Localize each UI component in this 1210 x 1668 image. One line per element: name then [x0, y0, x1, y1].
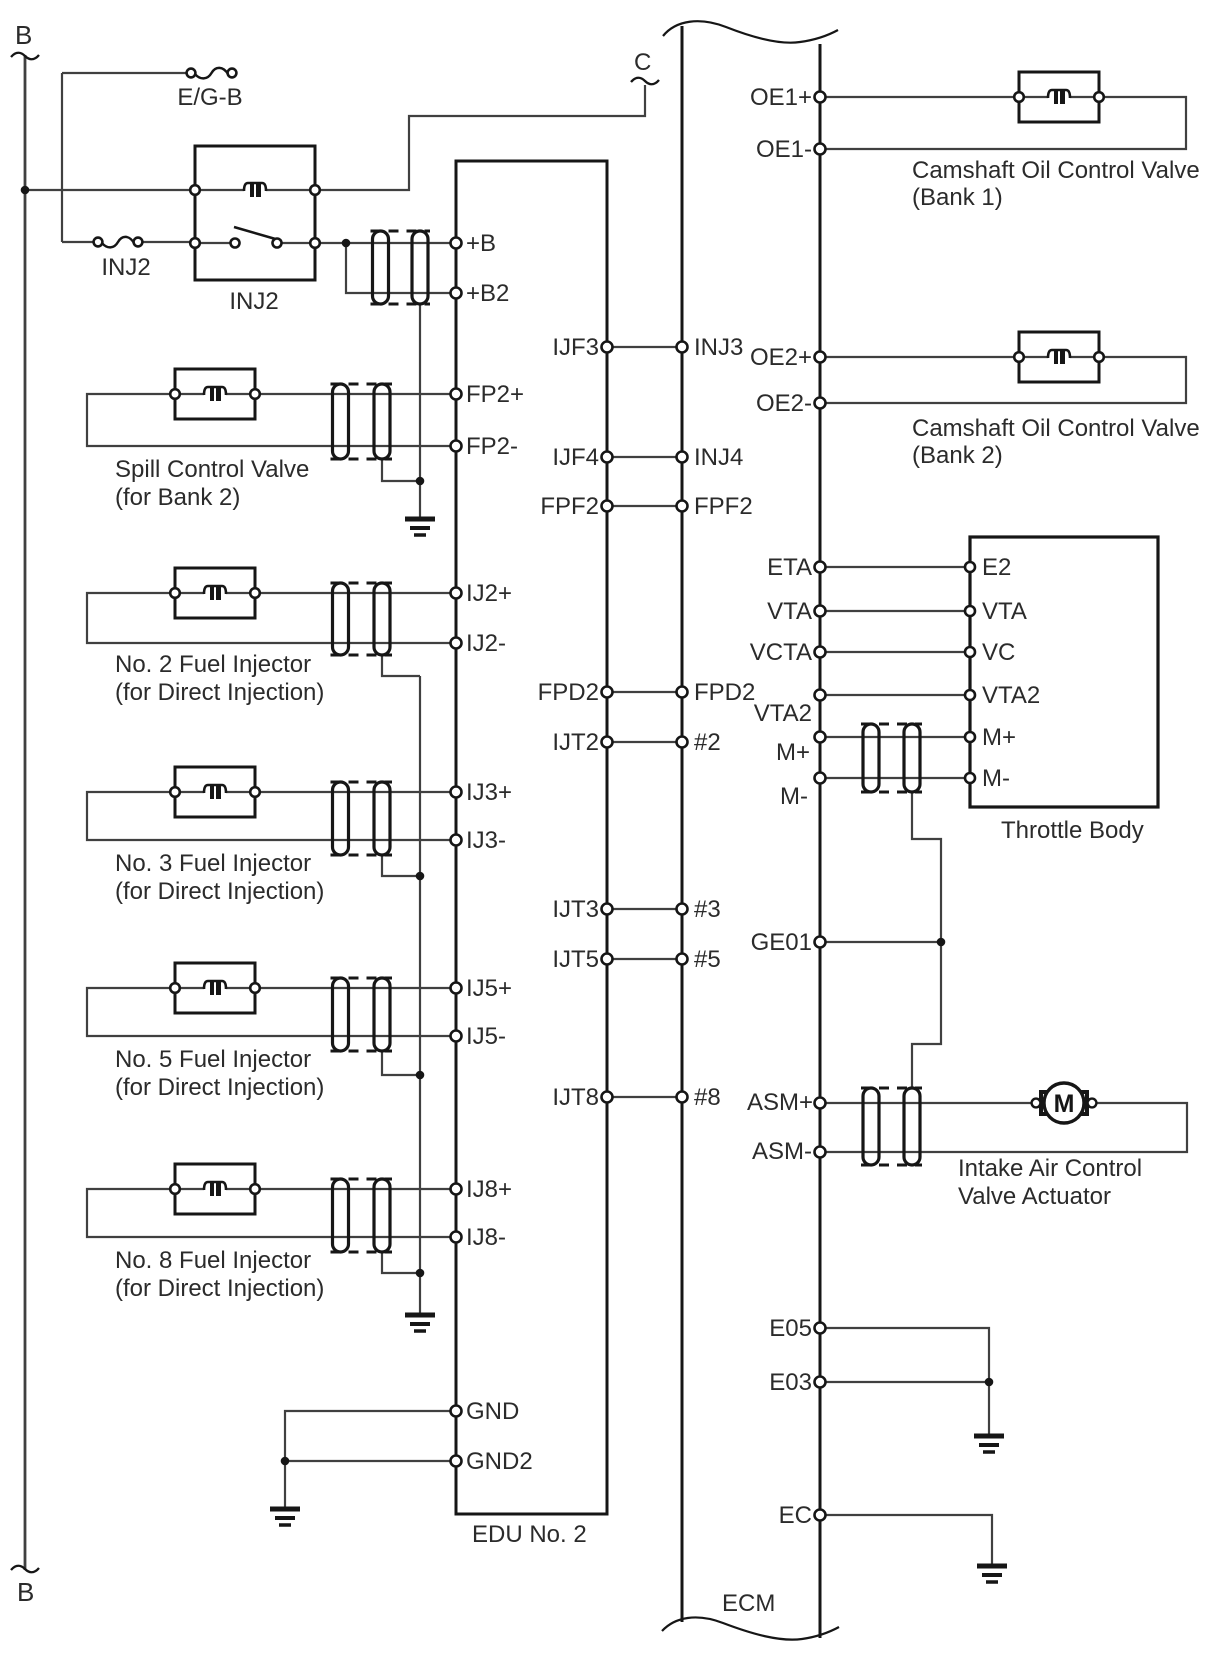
svg-text:Valve Actuator: Valve Actuator: [958, 1183, 1111, 1210]
svg-text:(for Direct Injection): (for Direct Injection): [115, 878, 324, 905]
svg-text:VTA: VTA: [767, 598, 812, 625]
svg-text:VTA2: VTA2: [754, 700, 812, 727]
svg-text:#2: #2: [694, 729, 721, 756]
svg-text:VTA2: VTA2: [982, 682, 1040, 709]
svg-text:M: M: [1054, 1090, 1075, 1118]
svg-text:FPF2: FPF2: [694, 493, 753, 520]
svg-text:INJ2: INJ2: [229, 288, 278, 315]
svg-text:IJ2-: IJ2-: [466, 630, 506, 657]
svg-text:+B2: +B2: [466, 280, 509, 307]
svg-text:B: B: [15, 20, 32, 50]
svg-text:FPD2: FPD2: [694, 679, 755, 706]
svg-text:(for Direct Injection): (for Direct Injection): [115, 1275, 324, 1302]
svg-text:IJ5+: IJ5+: [466, 975, 512, 1002]
svg-text:M-: M-: [982, 765, 1010, 792]
svg-text:ASM-: ASM-: [752, 1138, 812, 1165]
svg-text:Throttle Body: Throttle Body: [1001, 817, 1144, 844]
svg-text:(Bank 1): (Bank 1): [912, 184, 1003, 211]
svg-text:IJT8: IJT8: [552, 1084, 599, 1111]
svg-text:IJ5-: IJ5-: [466, 1023, 506, 1050]
svg-text:GND: GND: [466, 1398, 519, 1425]
svg-text:IJ3-: IJ3-: [466, 827, 506, 854]
svg-text:#8: #8: [694, 1084, 721, 1111]
svg-text:No. 3 Fuel Injector: No. 3 Fuel Injector: [115, 850, 311, 877]
svg-text:FP2-: FP2-: [466, 433, 518, 460]
svg-text:IJF4: IJF4: [552, 444, 599, 471]
svg-text:#3: #3: [694, 896, 721, 923]
svg-text:FPF2: FPF2: [540, 493, 599, 520]
svg-text:IJ2+: IJ2+: [466, 580, 512, 607]
svg-text:FP2+: FP2+: [466, 381, 524, 408]
svg-text:(for Bank 2): (for Bank 2): [115, 484, 240, 511]
svg-text:C: C: [634, 49, 651, 76]
svg-text:EC: EC: [779, 1502, 812, 1529]
svg-text:GE01: GE01: [751, 929, 812, 956]
svg-text:VTA: VTA: [982, 598, 1027, 625]
svg-text:ETA: ETA: [767, 554, 812, 581]
svg-text:IJT3: IJT3: [552, 896, 599, 923]
svg-text:E2: E2: [982, 554, 1011, 581]
svg-text:No. 8 Fuel Injector: No. 8 Fuel Injector: [115, 1247, 311, 1274]
svg-text:FPD2: FPD2: [538, 679, 599, 706]
svg-text:IJT5: IJT5: [552, 946, 599, 973]
svg-text:(for Direct Injection): (for Direct Injection): [115, 1074, 324, 1101]
svg-text:GND2: GND2: [466, 1448, 533, 1475]
svg-text:VCTA: VCTA: [750, 639, 812, 666]
svg-text:IJT2: IJT2: [552, 729, 599, 756]
svg-text:OE2-: OE2-: [756, 390, 812, 417]
svg-text:IJ3+: IJ3+: [466, 779, 512, 806]
svg-text:(Bank 2): (Bank 2): [912, 442, 1003, 469]
svg-text:#5: #5: [694, 946, 721, 973]
svg-text:Camshaft Oil Control Valve: Camshaft Oil Control Valve: [912, 157, 1200, 184]
svg-text:Intake Air Control: Intake Air Control: [958, 1155, 1142, 1182]
svg-text:E03: E03: [769, 1369, 812, 1396]
svg-text:E/G-B: E/G-B: [177, 84, 242, 111]
svg-text:No. 2 Fuel Injector: No. 2 Fuel Injector: [115, 651, 311, 678]
svg-text:INJ2: INJ2: [101, 254, 150, 281]
svg-text:INJ3: INJ3: [694, 334, 743, 361]
svg-text:INJ4: INJ4: [694, 444, 743, 471]
svg-text:M+: M+: [982, 724, 1016, 751]
svg-text:M+: M+: [776, 739, 810, 766]
svg-text:OE1-: OE1-: [756, 136, 812, 163]
svg-text:Spill Control Valve: Spill Control Valve: [115, 456, 309, 483]
svg-text:ASM+: ASM+: [747, 1089, 813, 1116]
svg-text:E05: E05: [769, 1315, 812, 1342]
svg-text:VC: VC: [982, 639, 1015, 666]
svg-text:Camshaft Oil Control Valve: Camshaft Oil Control Valve: [912, 415, 1200, 442]
svg-text:IJF3: IJF3: [552, 334, 599, 361]
svg-text:No. 5 Fuel Injector: No. 5 Fuel Injector: [115, 1046, 311, 1073]
svg-text:+B: +B: [466, 230, 496, 257]
svg-text:ECM: ECM: [722, 1590, 775, 1617]
svg-text:B: B: [17, 1577, 34, 1607]
svg-text:M-: M-: [780, 783, 808, 810]
svg-text:(for Direct Injection): (for Direct Injection): [115, 679, 324, 706]
svg-text:OE1+: OE1+: [750, 84, 812, 111]
svg-text:EDU No. 2: EDU No. 2: [472, 1521, 587, 1548]
svg-text:IJ8-: IJ8-: [466, 1224, 506, 1251]
svg-text:IJ8+: IJ8+: [466, 1176, 512, 1203]
svg-text:OE2+: OE2+: [750, 344, 812, 371]
